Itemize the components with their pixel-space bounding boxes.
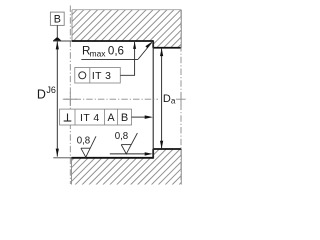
svg-text:0,8: 0,8 (77, 135, 90, 146)
center tick left (64, 98, 77, 100)
extension line top surface left (53, 40, 72, 42)
svg-text:0,6: 0,6 (108, 45, 124, 58)
svg-text:B: B (121, 112, 128, 124)
svg-text:Da: Da (163, 93, 176, 106)
Rmax diagonal leader (138, 43, 152, 60)
svg-text:IT 3: IT 3 (92, 71, 112, 82)
centerline left vertical dash-dot (69, 6, 71, 185)
svg-text:0,8: 0,8 (115, 131, 128, 142)
dimension Da line (161, 48, 163, 149)
Rmax vertical arrowhead (133, 42, 136, 49)
Rmax underline (81, 58, 138, 60)
center tick right (176, 98, 186, 100)
housing block top hatched section (60, 0, 190, 60)
arrowhead Da bottom (160, 141, 163, 149)
shoulder step face top (thick) (152, 40, 154, 47)
step face bottom (thick) (152, 149, 154, 159)
shaft outline thin (71, 158, 73, 185)
svg-text:max: max (90, 48, 107, 58)
datum B triangle (53, 37, 62, 41)
bearing seat surface top (thick) (72, 40, 153, 42)
shaft block bottom hatched section (60, 145, 190, 190)
svg-text:IT 4: IT 4 (80, 113, 100, 124)
centerline right vertical dash-dot (180, 10, 182, 185)
Rmax vertical arrow line (134, 42, 136, 59)
arrowhead D top (56, 41, 59, 49)
datum B leader (56, 25, 58, 37)
svg-text:A: A (108, 112, 116, 124)
perpendicularity symbol (67, 114, 69, 122)
datum B box (50, 12, 64, 25)
perpendicularity frame IT4 A B (60, 109, 132, 125)
svg-text:D: D (37, 87, 46, 101)
IT4 leader arrow (132, 116, 148, 118)
svg-text:J6: J6 (46, 85, 56, 95)
circularity frame IT3 (75, 68, 121, 84)
seat surface bottom (thick) (72, 157, 154, 159)
arrowhead Da top (160, 48, 163, 56)
roughness leader arrow to step face (110, 153, 148, 155)
arrowhead D bottom (56, 149, 59, 157)
dimension D line (56, 41, 58, 156)
center cross vertical segments (69, 93, 71, 107)
shoulder bottom surface top right (thick) (153, 47, 181, 49)
circularity symbol (79, 72, 86, 79)
extension line bottom surface left (53, 157, 71, 159)
Rmax diagonal arrowhead at corner (145, 42, 152, 49)
centerline horizontal dash-dot (63, 98, 158, 100)
housing outline thin (72, 10, 181, 48)
housing top edge (72, 9, 181, 11)
shoulder surface bottom right (thick) (153, 148, 181, 150)
svg-text:B: B (54, 14, 61, 26)
shoulder face connecting line (thin, full height) (152, 41, 154, 158)
IT3 leader (120, 59, 134, 75)
